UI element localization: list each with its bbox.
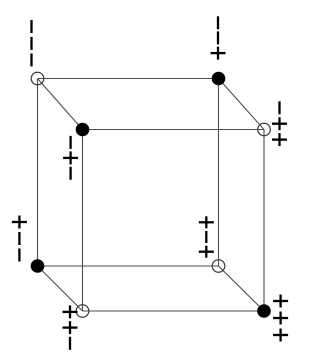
spin label at A: (-,-,-) dash dash dash xyxy=(30,20,32,66)
spin label at D: (-,+,+) dash plus plus xyxy=(272,101,287,146)
node A: open circle vertex (back top left) xyxy=(31,72,44,85)
wire: depth edge E-G xyxy=(38,266,83,311)
wire: back right edge B-F xyxy=(218,79,220,267)
wire: back bottom edge E-F xyxy=(38,265,219,267)
wire: back top edge A-B xyxy=(38,78,219,80)
node E: filled circle vertex (back bottom left) xyxy=(31,259,45,273)
wire: front left edge C-G xyxy=(82,130,84,312)
spin label at F: (+,-,+) plus dash plus xyxy=(199,216,214,257)
wire: front top edge C-D xyxy=(83,129,265,131)
spin label at B: (-,-,+) dash dash plus xyxy=(211,16,226,59)
wire: back left edge A-E xyxy=(37,79,39,267)
node B: filled circle vertex (back top right) xyxy=(212,72,226,86)
spin label at G: (+,+,-) plus plus dash xyxy=(63,305,78,349)
wire: depth edge A-C xyxy=(38,79,83,130)
wire: front right edge D-H xyxy=(263,130,265,312)
node C: filled circle vertex (front top left) xyxy=(76,123,90,137)
node D: open circle vertex (front top right) xyxy=(258,123,271,136)
node F: open circle vertex (back bottom right) xyxy=(212,260,225,273)
wire: depth edge B-D xyxy=(219,79,265,130)
wire: front bottom edge G-H xyxy=(83,310,265,312)
spin label at H: (+,+,+) plus plus plus xyxy=(273,295,288,342)
node G: open circle vertex (front bottom left) xyxy=(76,305,89,318)
wire: depth edge F-H xyxy=(219,266,265,311)
spin label at E: (+,-,-) plus dash dash xyxy=(12,216,27,262)
spin label at C: (-,+,-) dash plus dash xyxy=(63,136,78,180)
node H: filled circle vertex (front bottom right) xyxy=(257,304,271,318)
